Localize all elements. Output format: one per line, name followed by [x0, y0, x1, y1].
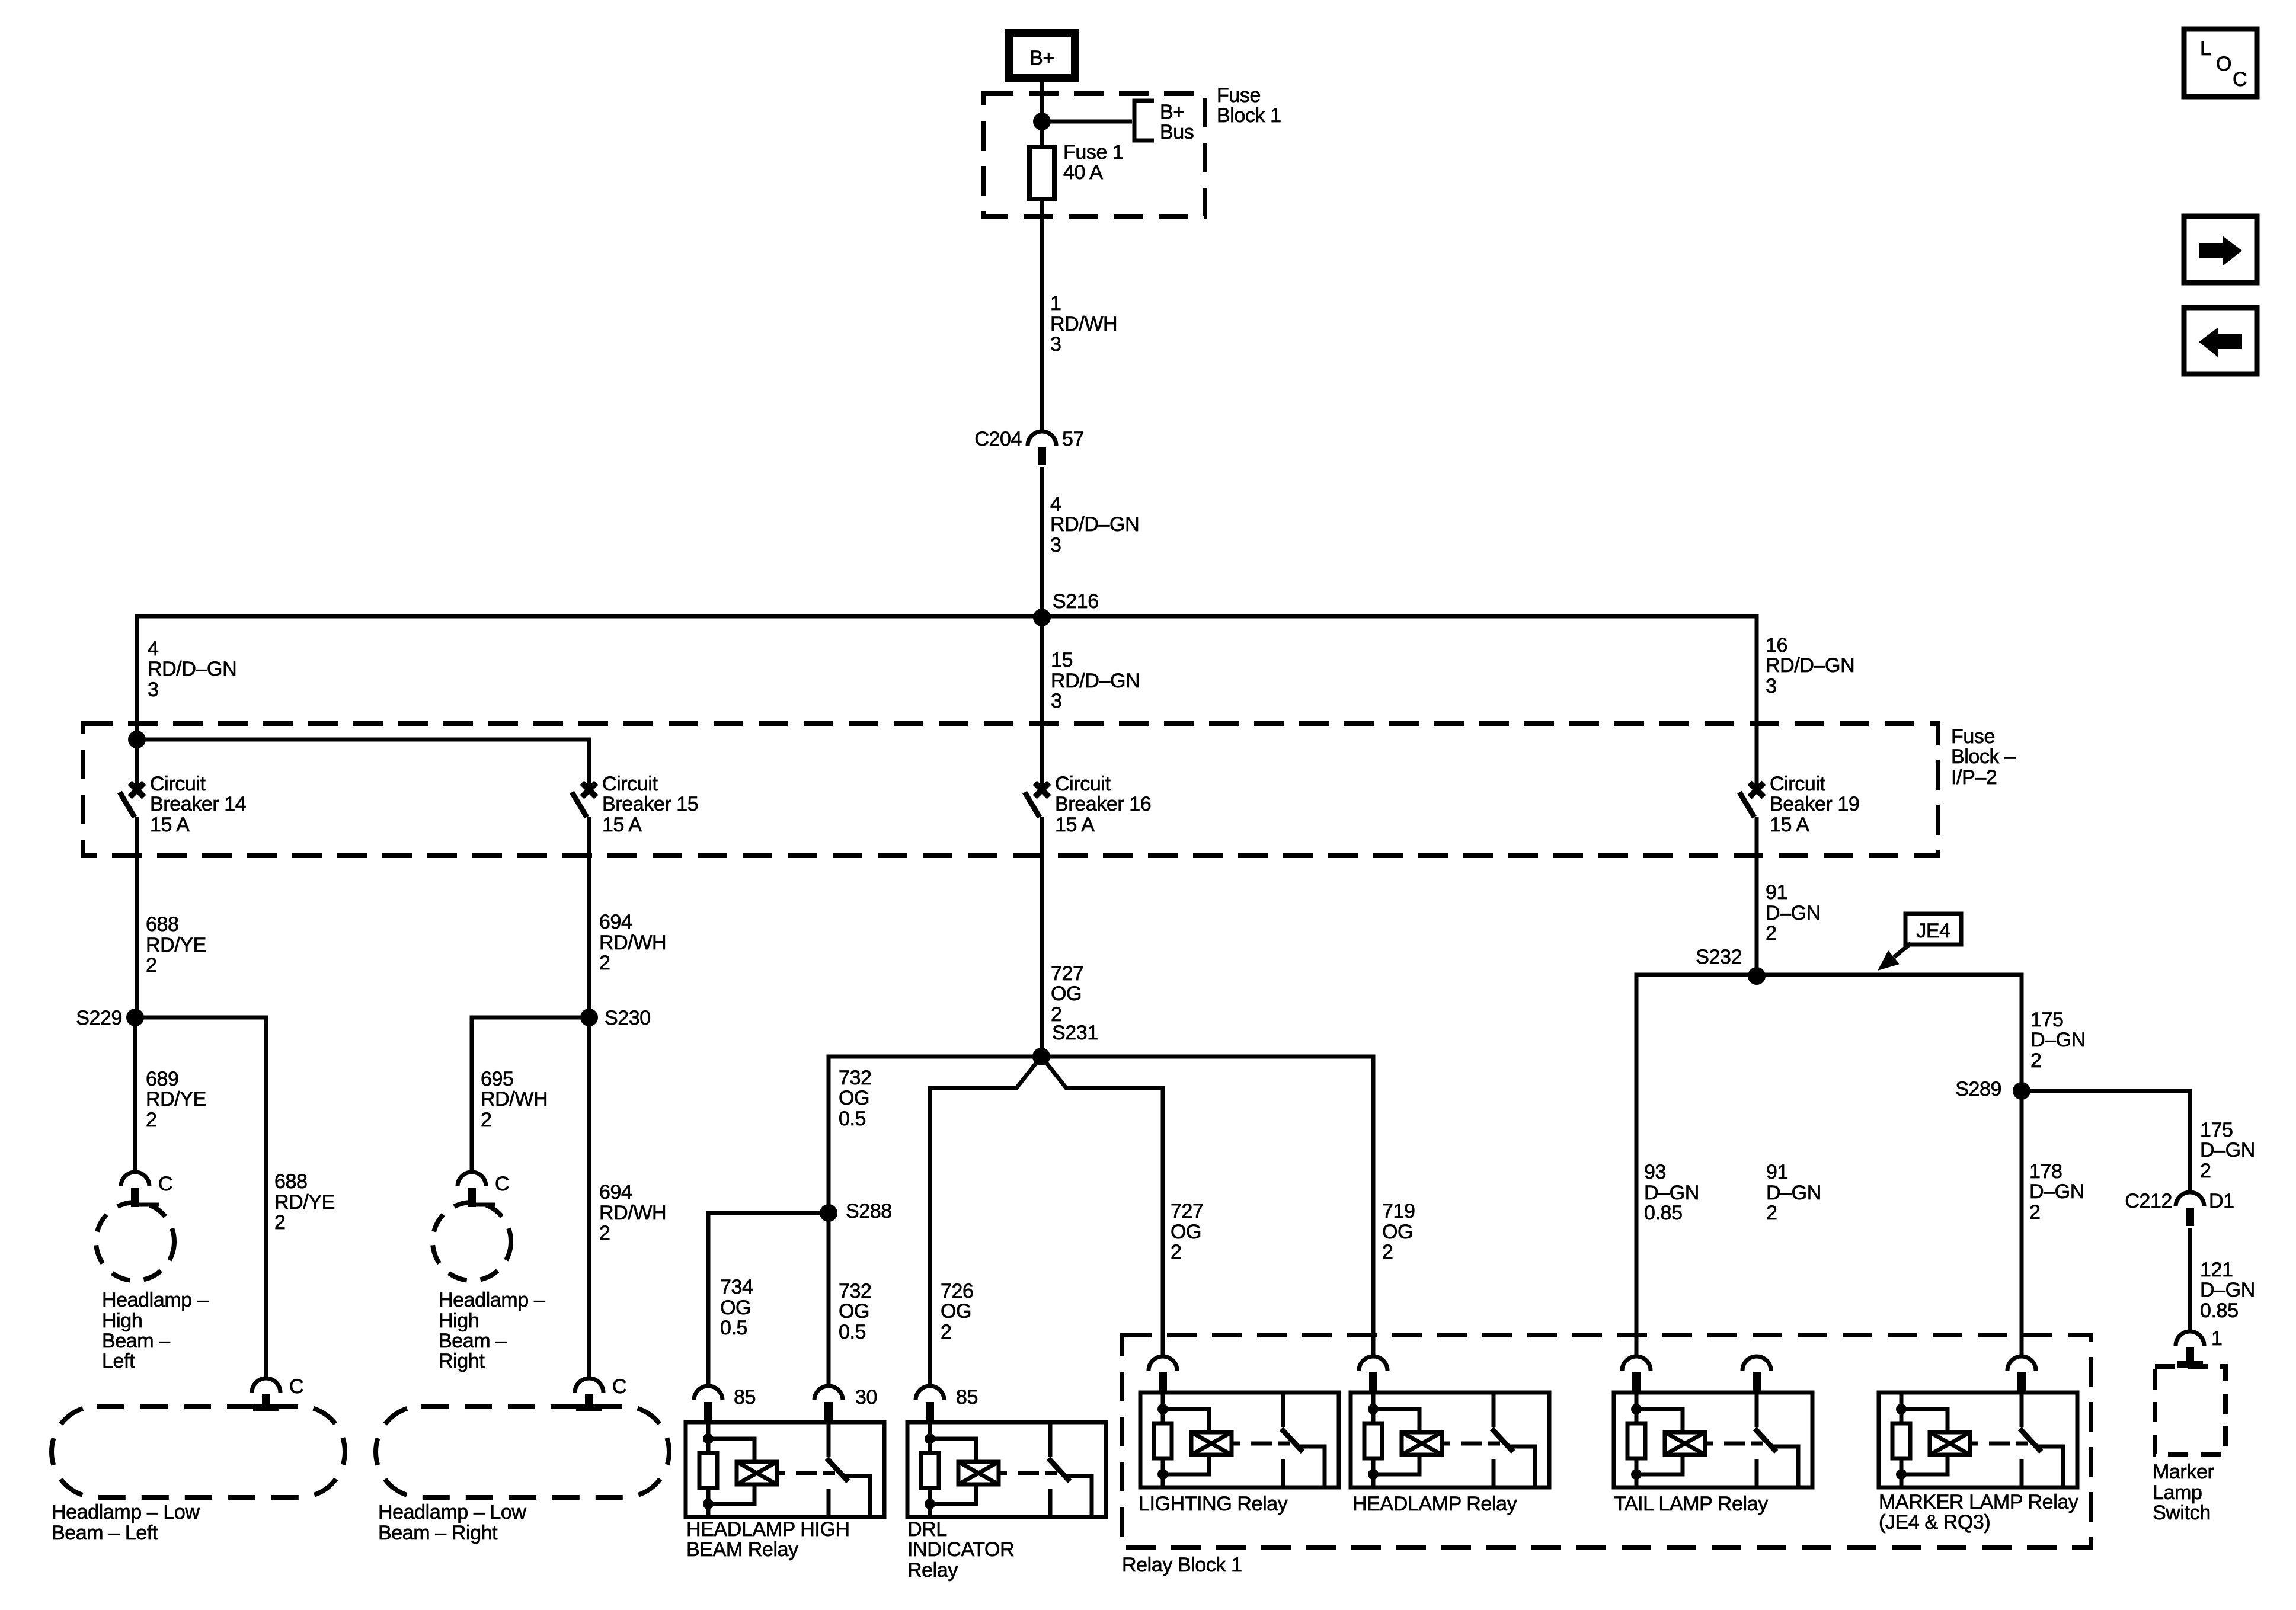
- svg-text:S289: S289: [1955, 1078, 2001, 1100]
- wire S231 fork left, circuit 732 OG: [930, 1057, 1041, 1388]
- svg-text:Lamp: Lamp: [2153, 1481, 2202, 1504]
- wire S231 fork right, circuit 727 OG: [1041, 1057, 1163, 1356]
- svg-text:1: 1: [2211, 1327, 2223, 1350]
- wire label 726 OG 2: [941, 1280, 974, 1343]
- svg-text:B+: B+: [1029, 47, 1054, 69]
- svg-text:694: 694: [599, 1181, 632, 1204]
- fuse block 1 dashed box: [984, 94, 1205, 216]
- svg-text:2: 2: [1171, 1241, 1182, 1263]
- svg-text:C: C: [495, 1173, 509, 1195]
- marker lamp switch label: [2153, 1461, 2214, 1524]
- svg-text:91: 91: [1766, 881, 1787, 904]
- wire label 121 D-GN 0.85: [2200, 1259, 2255, 1322]
- svg-text:OG: OG: [839, 1087, 869, 1109]
- svg-text:2: 2: [941, 1321, 952, 1343]
- circuit breaker CB15 label: [602, 773, 698, 836]
- svg-text:0.5: 0.5: [720, 1317, 747, 1339]
- svg-text:D–GN: D–GN: [2200, 1139, 2255, 1161]
- wire S229 branch to low beam left, circuit 688 RD/YE: [135, 1017, 266, 1378]
- svg-text:3: 3: [1050, 333, 1061, 356]
- connector C204 name: [974, 428, 1022, 450]
- svg-text:Breaker 15: Breaker 15: [602, 793, 698, 815]
- svg-text:OG: OG: [1051, 982, 1082, 1005]
- connector C204 pin 57: [1028, 431, 1056, 465]
- svg-text:High: High: [102, 1310, 142, 1332]
- svg-text:15 A: 15 A: [1770, 814, 1809, 836]
- svg-text:15 A: 15 A: [1055, 814, 1095, 836]
- relay TAIL LAMP: [1614, 1393, 1812, 1487]
- svg-text:Fuse 1: Fuse 1: [1063, 141, 1124, 164]
- wire label 688 RD/YE 2 branch: [274, 1170, 335, 1234]
- wire S216 bus: [137, 616, 1757, 790]
- svg-text:2: 2: [1766, 922, 1777, 945]
- svg-text:2: 2: [2029, 1201, 2041, 1224]
- svg-text:727: 727: [1171, 1200, 1204, 1222]
- wire S231 bus: [829, 1057, 1373, 1356]
- svg-text:Headlamp –: Headlamp –: [439, 1289, 545, 1311]
- back arrow box: [2184, 308, 2257, 374]
- circuit breaker CB15: [572, 783, 596, 817]
- svg-text:INDICATOR: INDICATOR: [907, 1538, 1014, 1561]
- svg-text:0.85: 0.85: [2200, 1299, 2239, 1322]
- circuit breaker CB16: [1025, 783, 1049, 817]
- svg-text:2: 2: [481, 1109, 492, 1131]
- svg-text:Right: Right: [439, 1350, 485, 1372]
- svg-text:S231: S231: [1052, 1022, 1098, 1044]
- svg-text:C: C: [289, 1375, 303, 1398]
- svg-text:2: 2: [274, 1211, 286, 1234]
- svg-text:16: 16: [1766, 634, 1787, 657]
- relay MARKER LAMP: [1879, 1393, 2077, 1487]
- connector C label low beam right: [612, 1375, 626, 1398]
- svg-text:15 A: 15 A: [150, 814, 190, 836]
- MARKER LAMP relay label: [1879, 1491, 2078, 1534]
- wire label 727 OG 2 lower: [1171, 1200, 1204, 1263]
- wire label 175 D-GN 2 first: [2030, 1009, 2086, 1072]
- svg-text:RD/WH: RD/WH: [599, 932, 666, 954]
- svg-text:MARKER LAMP Relay: MARKER LAMP Relay: [1879, 1491, 2078, 1513]
- svg-text:C212: C212: [2125, 1190, 2172, 1212]
- relay HEADLAMP HIGH BEAM: [686, 1422, 884, 1517]
- wire S232 bus: [1636, 975, 2022, 1356]
- svg-text:Block 1: Block 1: [1217, 104, 1281, 127]
- circuit breaker CB16 label: [1055, 773, 1151, 836]
- svg-text:688: 688: [146, 913, 179, 936]
- wire C204 to S216, circuit 4 RD/D-GN: [1040, 467, 1044, 616]
- node S230 name: [605, 1007, 651, 1029]
- svg-text:57: 57: [1062, 428, 1084, 450]
- HEADLAMP relay label: [1352, 1493, 1517, 1515]
- svg-text:RD/YE: RD/YE: [146, 1088, 206, 1110]
- wire S289 to C212, circuit 175 D-GN: [2022, 1091, 2190, 1192]
- svg-text:2: 2: [599, 952, 610, 974]
- svg-text:Breaker 14: Breaker 14: [150, 793, 246, 815]
- wire S289 to marker relay, circuit 178 D-GN: [2020, 1091, 2024, 1356]
- wire S288 to HHB relay pin 30, circuit 732 OG: [827, 1213, 831, 1388]
- svg-text:Relay Block 1: Relay Block 1: [1122, 1554, 1242, 1576]
- svg-text:689: 689: [146, 1068, 179, 1090]
- svg-text:C204: C204: [974, 428, 1022, 450]
- wire to B+ bus: [1042, 120, 1132, 124]
- connector C at high beam right: [458, 1172, 495, 1207]
- wire label 694 RD/WH 2 upper: [599, 911, 666, 974]
- svg-text:Fuse: Fuse: [1951, 725, 1995, 748]
- svg-text:RD/WH: RD/WH: [1050, 313, 1117, 335]
- svg-text:OG: OG: [720, 1297, 751, 1319]
- svg-text:RD/WH: RD/WH: [599, 1202, 666, 1224]
- wire CB19 to S232, circuit 91 D-GN: [1755, 817, 1759, 975]
- svg-text:2: 2: [599, 1222, 610, 1244]
- marker lamp switch dashed box: [2155, 1366, 2225, 1454]
- svg-text:2: 2: [1382, 1241, 1393, 1263]
- svg-text:175: 175: [2200, 1119, 2233, 1141]
- svg-text:Switch: Switch: [2153, 1502, 2211, 1524]
- svg-text:3: 3: [1051, 690, 1062, 712]
- svg-text:726: 726: [941, 1280, 974, 1302]
- svg-text:Headlamp – Low: Headlamp – Low: [52, 1501, 200, 1523]
- svg-text:40 A: 40 A: [1063, 161, 1103, 184]
- wire label 178 D-GN 2: [2029, 1160, 2084, 1224]
- fuse block I/P-2 label: [1951, 725, 2016, 789]
- node S288 name: [846, 1200, 892, 1222]
- svg-text:15 A: 15 A: [602, 814, 642, 836]
- svg-text:OG: OG: [1171, 1221, 1201, 1243]
- svg-text:2: 2: [2200, 1160, 2211, 1182]
- svg-text:HEADLAMP Relay: HEADLAMP Relay: [1352, 1493, 1517, 1515]
- wire C212 to marker lamp switch, circuit 121 D-GN: [2188, 1228, 2192, 1331]
- svg-text:Beam –: Beam –: [439, 1330, 507, 1352]
- svg-text:TAIL LAMP Relay: TAIL LAMP Relay: [1614, 1493, 1768, 1515]
- wire label 688 RD/YE 2: [146, 913, 206, 977]
- svg-text:S230: S230: [605, 1007, 651, 1029]
- node CB14 feed junction: [128, 731, 146, 748]
- relay LIGHTING: [1140, 1393, 1339, 1487]
- svg-text:D–GN: D–GN: [1766, 1182, 1821, 1204]
- svg-text:JE4: JE4: [1916, 920, 1950, 942]
- wire S229 to high beam left, circuit 689 RD/YE: [133, 1017, 137, 1172]
- connector C label low beam left: [289, 1375, 303, 1398]
- headlamp low beam right label: [378, 1501, 526, 1544]
- svg-text:RD/WH: RD/WH: [481, 1088, 548, 1110]
- svg-text:C: C: [158, 1173, 172, 1195]
- connector pin at LIGHTING relay coil: [1149, 1356, 1177, 1393]
- wire label 695 RD/WH 2: [481, 1068, 548, 1131]
- circuit breaker CB14: [120, 783, 144, 817]
- svg-text:719: 719: [1382, 1200, 1415, 1222]
- svg-text:Circuit: Circuit: [1770, 773, 1825, 795]
- relay HEADLAMP: [1351, 1393, 1549, 1487]
- svg-text:OG: OG: [839, 1300, 869, 1323]
- svg-text:91: 91: [1766, 1161, 1788, 1183]
- svg-text:I/P–2: I/P–2: [1951, 766, 1997, 789]
- LIGHTING relay label: [1139, 1493, 1288, 1515]
- svg-text:Bus: Bus: [1160, 121, 1194, 143]
- svg-text:O: O: [2216, 53, 2231, 75]
- node S232 name: [1696, 946, 1742, 968]
- connector C212 name: [2125, 1190, 2172, 1212]
- connector pin 1 label: [2211, 1327, 2223, 1350]
- fuse block I/P-2 dashed box: [83, 724, 1938, 856]
- svg-text:0.5: 0.5: [839, 1108, 866, 1130]
- connector C at low beam right: [575, 1378, 603, 1411]
- circuit breaker CB19: [1739, 783, 1764, 817]
- svg-text:727: 727: [1051, 962, 1084, 985]
- forward arrow box: [2184, 216, 2257, 283]
- svg-text:734: 734: [720, 1276, 753, 1298]
- svg-text:RD/D–GN: RD/D–GN: [1051, 670, 1140, 692]
- svg-text:B+: B+: [1160, 101, 1185, 123]
- wire Fuse 1 to C204, circuit 1 RD/WH: [1040, 199, 1044, 431]
- svg-text:Marker: Marker: [2153, 1461, 2214, 1483]
- fuse block 1 label: [1217, 84, 1281, 127]
- svg-text:121: 121: [2200, 1259, 2233, 1281]
- svg-text:RD/D–GN: RD/D–GN: [148, 658, 236, 680]
- wire label 93 D-GN 0.85: [1644, 1161, 1699, 1224]
- B+ bus label: [1160, 101, 1194, 143]
- wire B+ to Fuse 1: [1040, 78, 1044, 147]
- node S216 name: [1053, 590, 1099, 613]
- connector pin at TAIL LAMP relay coil: [1622, 1356, 1651, 1393]
- svg-text:15: 15: [1051, 649, 1073, 671]
- node S289 name: [1955, 1078, 2001, 1100]
- svg-text:85: 85: [956, 1386, 978, 1409]
- svg-text:D–GN: D–GN: [1766, 902, 1821, 924]
- connector pin at TAIL LAMP relay switch: [1742, 1356, 1771, 1393]
- headlamp low beam left box: [52, 1406, 345, 1497]
- svg-text:S232: S232: [1696, 946, 1742, 968]
- connector pin 85 at HHB relay: [694, 1386, 722, 1422]
- svg-text:175: 175: [2030, 1009, 2064, 1031]
- wire label 734 OG 0.5: [720, 1276, 753, 1339]
- connector pin 85 at DRL relay number: [956, 1386, 978, 1409]
- headlamp high beam right label: [439, 1289, 545, 1372]
- wire label 175 D-GN 2 second: [2200, 1119, 2255, 1182]
- connector pin 85 at HHB relay number: [734, 1386, 756, 1409]
- DRL INDICATOR relay label: [907, 1518, 1014, 1582]
- svg-text:OG: OG: [941, 1300, 971, 1323]
- LOC reference box: [2184, 29, 2257, 97]
- node S231 name: [1052, 1022, 1098, 1044]
- relay block 1 dashed box: [1122, 1335, 2091, 1548]
- node S229: [126, 1009, 144, 1026]
- svg-text:RD/YE: RD/YE: [146, 934, 206, 956]
- connector pin at HEADLAMP relay coil: [1359, 1356, 1387, 1393]
- svg-text:S229: S229: [76, 1007, 122, 1029]
- svg-text:HEADLAMP HIGH: HEADLAMP HIGH: [686, 1518, 850, 1541]
- svg-text:D–GN: D–GN: [1644, 1182, 1699, 1204]
- svg-text:L: L: [2200, 37, 2211, 60]
- wire label 719 OG 2: [1382, 1200, 1415, 1263]
- relay block 1 label: [1122, 1554, 1242, 1576]
- wire to CB15 inside fuse block: [137, 740, 589, 790]
- wire label 727 OG 2 upper: [1051, 962, 1084, 1026]
- svg-text:BEAM Relay: BEAM Relay: [686, 1538, 798, 1561]
- svg-text:178: 178: [2029, 1160, 2062, 1183]
- wire S216 to CB16, circuit 15 RD/D-GN: [1040, 616, 1044, 790]
- wire label 689 RD/YE 2: [146, 1068, 206, 1131]
- svg-text:S288: S288: [846, 1200, 892, 1222]
- wire CB15 to S230, circuit 694 RD/WH: [587, 817, 591, 1017]
- wire label 16 RD/D-GN 3: [1766, 634, 1854, 697]
- svg-text:2: 2: [146, 1109, 157, 1131]
- wire label 4 RD/D-GN 3 left: [148, 638, 236, 701]
- circuit breaker CB14 label: [150, 773, 246, 836]
- svg-text:30: 30: [855, 1386, 877, 1409]
- svg-text:0.5: 0.5: [839, 1321, 866, 1343]
- wire label 732 OG 0.5 upper: [839, 1067, 872, 1130]
- node B+ bus junction: [1033, 113, 1051, 130]
- svg-text:Block –: Block –: [1951, 745, 2016, 768]
- svg-text:Breaker 16: Breaker 16: [1055, 793, 1151, 815]
- node S231: [1032, 1048, 1050, 1065]
- connector pin 30 at HHB relay: [814, 1386, 843, 1422]
- svg-text:D–GN: D–GN: [2030, 1029, 2086, 1051]
- wire label 4 RD/D-GN 3: [1050, 493, 1139, 556]
- headlamp low beam left label: [52, 1501, 200, 1544]
- wire label 732 OG 0.5 lower: [839, 1280, 872, 1343]
- node S288: [820, 1204, 837, 1222]
- connector C204 pin number 57: [1062, 428, 1084, 450]
- svg-text:2: 2: [2030, 1049, 2042, 1072]
- svg-text:3: 3: [1050, 534, 1061, 556]
- svg-text:D–GN: D–GN: [2200, 1279, 2255, 1301]
- svg-text:LIGHTING Relay: LIGHTING Relay: [1139, 1493, 1288, 1515]
- svg-text:4: 4: [1050, 493, 1061, 516]
- TAIL LAMP relay label: [1614, 1493, 1768, 1515]
- svg-text:3: 3: [148, 678, 159, 701]
- svg-text:Headlamp – Low: Headlamp – Low: [378, 1501, 526, 1523]
- svg-text:Headlamp –: Headlamp –: [102, 1289, 209, 1311]
- B+ bus bar symbol: [1134, 101, 1154, 140]
- connector C212 pin D1 label: [2209, 1190, 2234, 1212]
- headlamp high beam right lamp circle: [433, 1202, 511, 1281]
- svg-text:688: 688: [274, 1170, 308, 1193]
- wire label 91 D-GN 2 lower: [1766, 1161, 1821, 1224]
- node S289: [2013, 1082, 2030, 1100]
- svg-text:695: 695: [481, 1068, 514, 1090]
- node S229 name: [76, 1007, 122, 1029]
- connector C at low beam left: [252, 1378, 280, 1411]
- svg-text:2: 2: [146, 954, 157, 977]
- connector C label high beam right: [495, 1173, 509, 1195]
- svg-text:RD/D–GN: RD/D–GN: [1766, 654, 1854, 677]
- fuse F1 label: [1063, 141, 1124, 184]
- node S230: [580, 1009, 598, 1026]
- wire CB14 to S229, circuit 688 RD/YE: [135, 817, 139, 1017]
- wire label 91 D-GN 2 upper: [1766, 881, 1821, 945]
- svg-text:93: 93: [1644, 1161, 1666, 1183]
- svg-text:694: 694: [599, 911, 632, 933]
- svg-text:1: 1: [1050, 292, 1061, 315]
- svg-text:OG: OG: [1382, 1221, 1413, 1243]
- power symbol B+ box: [1009, 33, 1075, 78]
- svg-text:C: C: [2233, 68, 2247, 91]
- svg-text:732: 732: [839, 1067, 872, 1089]
- relay DRL INDICATOR: [907, 1422, 1106, 1517]
- wire S230 branch to high beam right, circuit 695 RD/WH: [472, 1017, 589, 1172]
- svg-text:4: 4: [148, 638, 159, 660]
- wire fuse block feed to CB14: [135, 740, 139, 790]
- svg-text:DRL: DRL: [907, 1518, 947, 1541]
- svg-text:732: 732: [839, 1280, 872, 1302]
- wire label 694 RD/WH 2 lower: [599, 1181, 666, 1244]
- svg-text:85: 85: [734, 1386, 756, 1409]
- wire label 1 RD/WH 3: [1050, 292, 1117, 356]
- svg-text:Beaker 19: Beaker 19: [1770, 793, 1859, 815]
- svg-text:S216: S216: [1053, 590, 1099, 613]
- svg-text:Left: Left: [102, 1350, 135, 1372]
- headlamp high beam left lamp circle: [96, 1202, 174, 1281]
- svg-text:D1: D1: [2209, 1190, 2234, 1212]
- wire CB16 to S231, circuit 727 OG: [1040, 817, 1044, 1057]
- node S232: [1748, 967, 1766, 985]
- svg-text:(JE4 & RQ3): (JE4 & RQ3): [1879, 1511, 1990, 1534]
- svg-text:Beam – Left: Beam – Left: [52, 1522, 158, 1544]
- wire S288 to HHB relay pin 85, circuit 734 OG: [708, 1213, 829, 1388]
- connector C at high beam left: [121, 1172, 159, 1207]
- wire label 15 RD/D-GN 3: [1051, 649, 1140, 712]
- svg-text:RD/YE: RD/YE: [274, 1191, 335, 1214]
- connector pin at MARKER LAMP relay switch: [2007, 1356, 2036, 1393]
- svg-text:High: High: [439, 1310, 479, 1332]
- option code JE4 box with arrow: [1878, 914, 1961, 971]
- svg-text:Circuit: Circuit: [602, 773, 658, 795]
- svg-text:Circuit: Circuit: [150, 773, 206, 795]
- svg-text:Fuse: Fuse: [1217, 84, 1261, 107]
- HEADLAMP HIGH BEAM relay label: [686, 1518, 850, 1561]
- svg-text:Beam – Right: Beam – Right: [378, 1522, 498, 1544]
- fuse F1: [1029, 147, 1054, 199]
- svg-text:3: 3: [1766, 675, 1777, 697]
- wire S230 to low beam right, circuit 694 RD/WH: [587, 1017, 591, 1378]
- svg-text:D–GN: D–GN: [2029, 1180, 2084, 1203]
- svg-text:RD/D–GN: RD/D–GN: [1050, 513, 1139, 536]
- connector pin 30 at HHB relay number: [855, 1386, 877, 1409]
- connector pin 1 at marker lamp switch: [2176, 1331, 2204, 1368]
- svg-text:2: 2: [1766, 1202, 1777, 1224]
- headlamp low beam right box: [376, 1406, 669, 1497]
- svg-text:Relay: Relay: [907, 1559, 958, 1582]
- connector pin 85 at DRL relay: [916, 1386, 944, 1422]
- svg-text:C: C: [612, 1375, 626, 1398]
- svg-text:0.85: 0.85: [1644, 1202, 1683, 1224]
- connector C212 pin D1: [2176, 1192, 2204, 1226]
- headlamp high beam left label: [102, 1289, 209, 1372]
- circuit breaker CB19 label: [1770, 773, 1859, 836]
- node S216: [1033, 609, 1051, 626]
- svg-text:Beam –: Beam –: [102, 1330, 170, 1352]
- svg-text:Circuit: Circuit: [1055, 773, 1111, 795]
- connector C label high beam left: [158, 1173, 172, 1195]
